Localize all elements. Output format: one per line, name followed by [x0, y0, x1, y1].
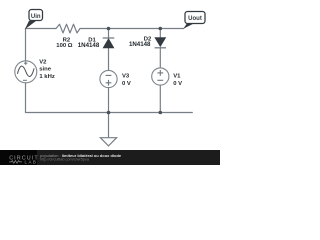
node flag Uout [183, 24, 193, 29]
svg-text:1N4148: 1N4148 [129, 41, 151, 48]
wire D2 to rail [159, 29, 161, 38]
svg-text:Uin: Uin [31, 14, 41, 20]
node junction dot V1/rail [159, 111, 163, 115]
diode D1 triangle [103, 39, 114, 48]
svg-text:http://circuitlab.com/c/wr5pxa: http://circuitlab.com/c/wr5pxa [40, 157, 90, 161]
node flag Uin [25, 21, 36, 30]
svg-text:0 V: 0 V [173, 81, 182, 87]
node junction dot V3/ground [107, 111, 111, 115]
diode D2 triangle [155, 38, 166, 47]
resistor R2 [56, 24, 80, 33]
ground [100, 138, 116, 146]
wire D2 to V1 [159, 48, 161, 68]
svg-text:sine: sine [39, 67, 52, 73]
node junction dot D2/rail [159, 27, 163, 31]
wire D1 anode to rail [108, 29, 110, 39]
node junction dot D1/rail [107, 27, 111, 31]
wire D1 to V3 [108, 48, 110, 70]
wire V1 to bottom rail [159, 85, 161, 112]
wire bottom rail [26, 112, 193, 114]
diode D1 cathode bar [103, 37, 115, 39]
source V1 (0V) [152, 68, 169, 85]
svg-text:LAB: LAB [25, 160, 38, 165]
svg-text:V3: V3 [122, 74, 130, 80]
wire V3 to bottom rail [108, 88, 110, 113]
wire ground stem [108, 113, 110, 138]
wire top rail left [26, 28, 57, 30]
svg-text:Uout: Uout [188, 16, 202, 22]
svg-text:100 Ω: 100 Ω [56, 43, 72, 49]
wire left vertical [25, 29, 27, 61]
svg-text:1N4148: 1N4148 [78, 42, 100, 49]
wire V2 bottom [25, 83, 27, 113]
svg-text:V1: V1 [173, 74, 181, 80]
svg-text:V2: V2 [39, 59, 47, 65]
svg-text:1 kHz: 1 kHz [39, 74, 54, 80]
source V3 (0V) [100, 70, 117, 87]
diode D2 cathode bar [155, 47, 166, 49]
source V2 (sine) [15, 61, 37, 83]
watermark bar [0, 150, 220, 165]
wire top rail middle [80, 28, 184, 30]
svg-text:0 V: 0 V [122, 81, 131, 87]
